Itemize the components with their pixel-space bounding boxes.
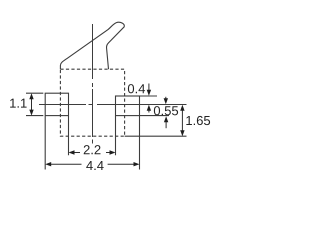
1.65 dimension <box>180 105 184 136</box>
extension line bottom (body bottom, right) <box>125 135 187 137</box>
labels <box>10 84 210 170</box>
horizontal center line <box>39 104 187 106</box>
label 2.2 <box>84 145 101 154</box>
extension line C: right terminal bottom <box>140 115 170 117</box>
body (dashed hidden outline) <box>60 69 124 136</box>
2.2 dimension <box>69 150 116 154</box>
label 4.4 <box>86 161 103 170</box>
0.4 dimension arrows (outside pair) <box>147 84 151 113</box>
1.1 extension lines <box>26 93 43 115</box>
4.4 dimension <box>45 162 139 166</box>
terminal left <box>45 93 68 115</box>
0.55 dimension arrows (outside pair) <box>164 97 169 128</box>
1.1 dimension <box>29 93 33 115</box>
label 0.55 <box>154 106 178 115</box>
extension line A: right terminal top <box>140 95 158 97</box>
label 0.4 <box>128 84 145 93</box>
label 1.65 <box>186 116 210 125</box>
label 1.1 <box>10 99 26 108</box>
lever (actuator) outline <box>60 22 124 69</box>
2.2 extension lines <box>69 116 116 155</box>
dimension lines + arrows <box>29 84 184 167</box>
vertical center line <box>92 24 94 144</box>
terminal right <box>116 96 140 116</box>
4.4 extension lines <box>45 116 139 170</box>
